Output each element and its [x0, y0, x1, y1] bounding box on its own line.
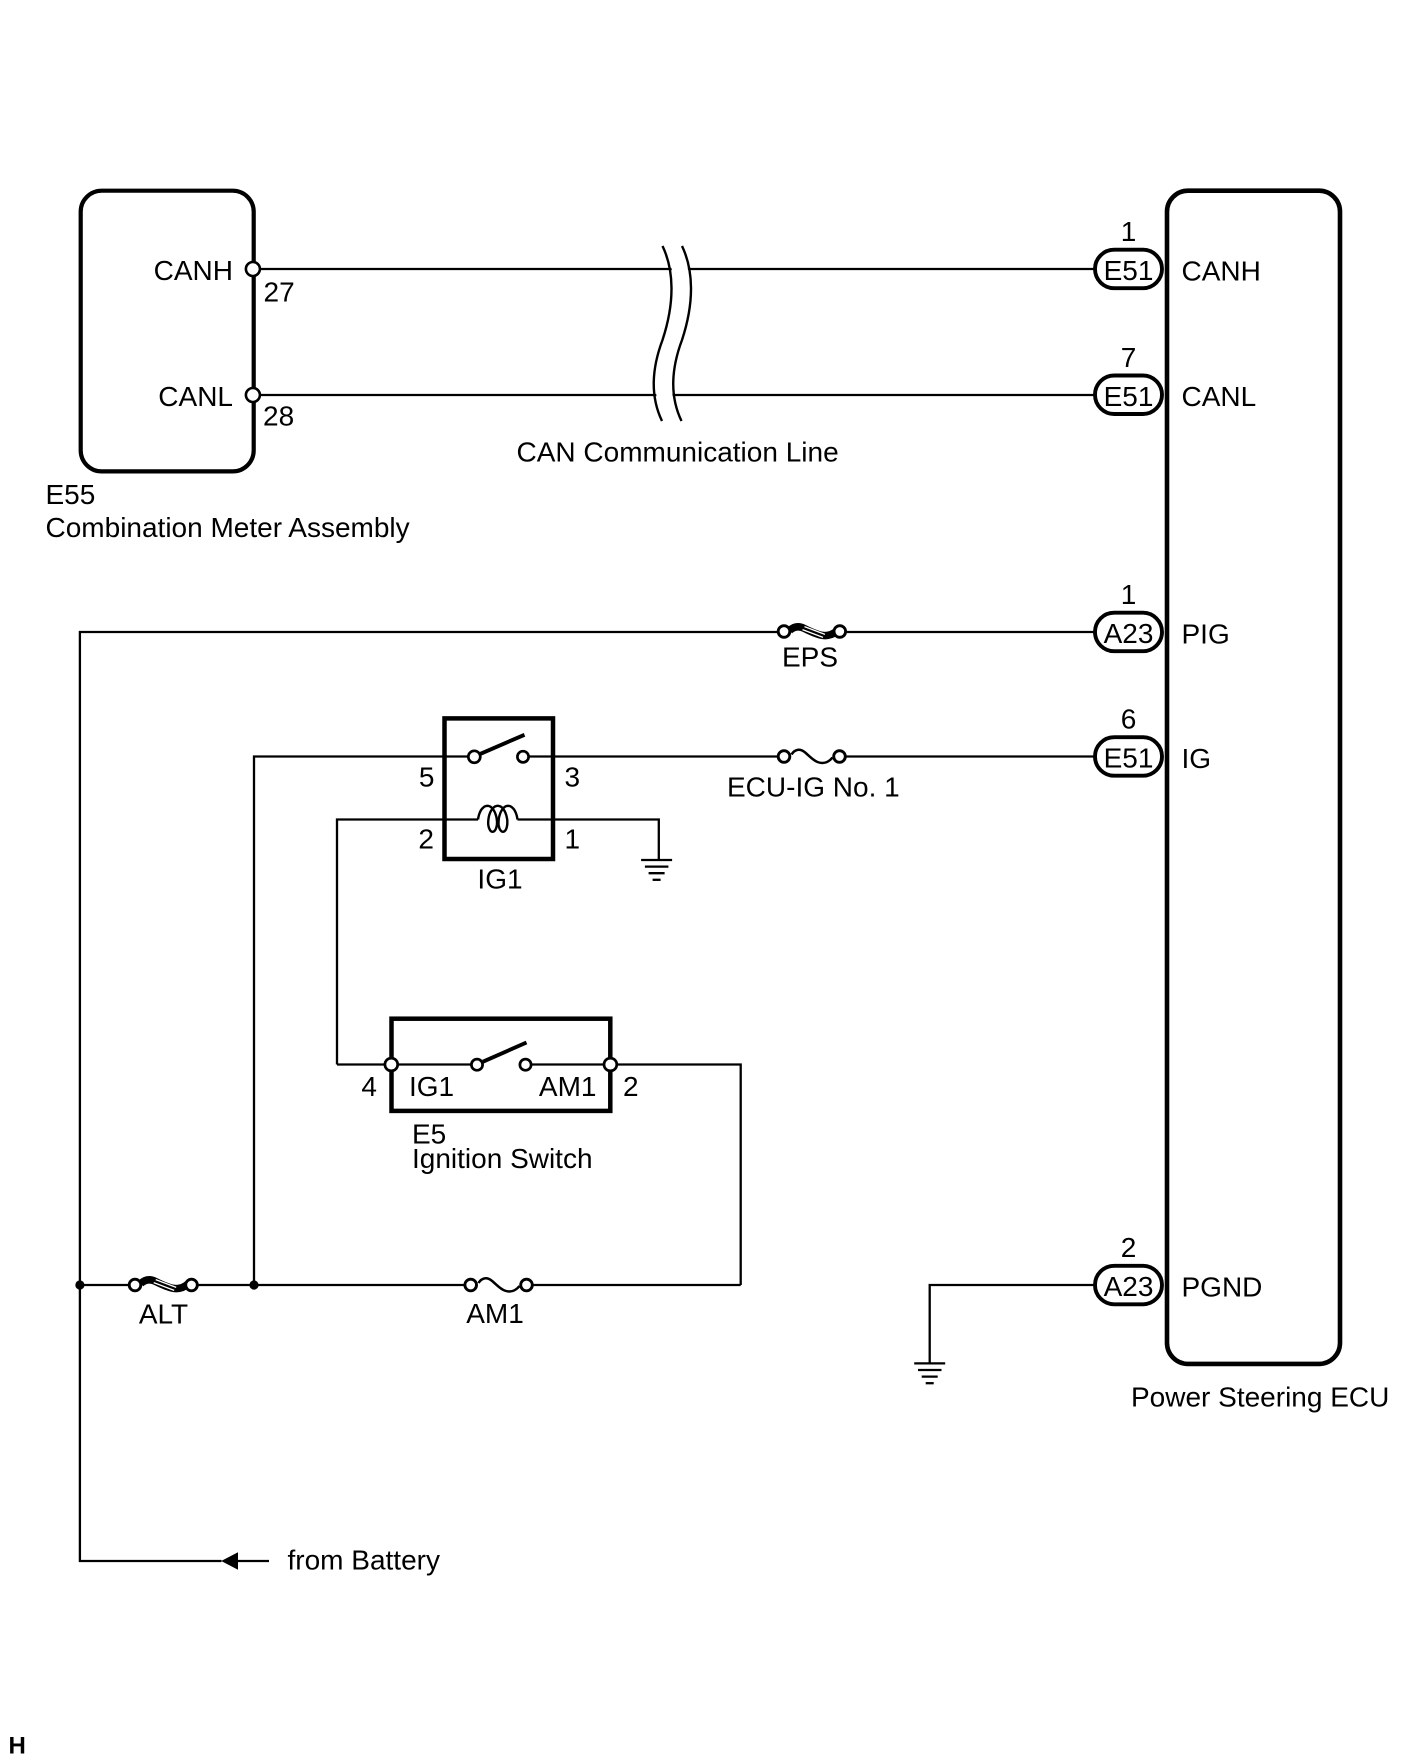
svg-text:2: 2 [623, 1071, 639, 1102]
svg-text:27: 27 [264, 277, 295, 308]
svg-text:Combination Meter Assembly: Combination Meter Assembly [46, 512, 410, 543]
svg-text:Power Steering ECU: Power Steering ECU [1131, 1382, 1389, 1413]
svg-text:PIG: PIG [1182, 619, 1230, 650]
svg-text:ECU-IG No. 1: ECU-IG No. 1 [727, 772, 900, 803]
svg-text:3: 3 [565, 762, 581, 793]
svg-text:IG: IG [1182, 743, 1212, 774]
svg-text:6: 6 [1121, 704, 1137, 735]
svg-text:1: 1 [1121, 216, 1137, 247]
svg-text:H: H [9, 1733, 26, 1760]
svg-text:E51: E51 [1104, 255, 1154, 286]
svg-text:ALT: ALT [139, 1299, 188, 1330]
svg-text:E55: E55 [46, 479, 96, 510]
svg-text:CANH: CANH [154, 255, 233, 286]
svg-text:A23: A23 [1104, 1271, 1154, 1302]
svg-text:7: 7 [1121, 342, 1137, 373]
svg-text:E51: E51 [1104, 381, 1154, 412]
svg-text:5: 5 [419, 762, 435, 793]
svg-text:CANL: CANL [158, 381, 233, 412]
svg-text:4: 4 [361, 1071, 377, 1102]
svg-text:CAN Communication Line: CAN Communication Line [517, 437, 839, 468]
svg-text:IG1: IG1 [409, 1071, 454, 1102]
svg-text:2: 2 [418, 824, 434, 855]
svg-text:PGND: PGND [1182, 1272, 1263, 1303]
svg-text:Ignition Switch: Ignition Switch [412, 1143, 593, 1174]
svg-text:AM1: AM1 [539, 1071, 597, 1102]
svg-text:EPS: EPS [782, 642, 838, 673]
svg-text:A23: A23 [1104, 618, 1154, 649]
svg-text:IG1: IG1 [477, 864, 522, 895]
svg-text:E51: E51 [1104, 743, 1154, 774]
svg-text:AM1: AM1 [466, 1298, 524, 1329]
svg-text:2: 2 [1121, 1232, 1137, 1263]
svg-text:1: 1 [1121, 579, 1137, 610]
svg-text:28: 28 [263, 401, 294, 432]
svg-text:CANL: CANL [1182, 381, 1257, 412]
svg-text:from Battery: from Battery [288, 1544, 440, 1575]
svg-text:CANH: CANH [1182, 256, 1261, 287]
svg-text:1: 1 [565, 824, 581, 855]
